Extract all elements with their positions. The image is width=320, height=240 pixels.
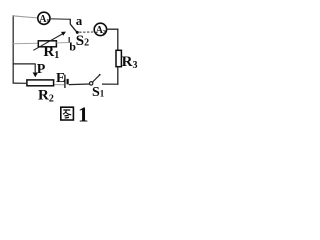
switch S1 blade <box>93 75 100 82</box>
rheostat R1 body <box>38 41 56 47</box>
wire: battery to S1 <box>69 83 90 86</box>
ammeter A1 <box>38 12 50 24</box>
wire: A2 to right rail <box>107 28 119 30</box>
battery E long plate <box>64 75 66 88</box>
switch S1 pivot ring <box>90 82 93 85</box>
slider P arrowhead <box>33 73 38 78</box>
wire: R1 row right (faint) <box>56 42 69 44</box>
wire: slider branch <box>13 63 36 65</box>
node a contact stub <box>69 19 71 24</box>
wire: S2 pivot to A2 (dashed) <box>79 31 94 33</box>
wire: R2 to battery (faint) <box>54 84 65 86</box>
wire: right rail upper <box>117 29 119 51</box>
svg-text:b: b <box>69 40 76 54</box>
node b contact stub <box>68 37 70 43</box>
switch S2 pivot <box>76 31 79 34</box>
wire: bottom left segment <box>13 82 28 84</box>
resistor R3 <box>116 50 121 66</box>
wire: bottom right segment <box>102 83 118 85</box>
ammeter A2 <box>94 23 106 35</box>
wire: R1 row left (faint) <box>13 42 38 44</box>
wire: top wire left of A1 <box>13 16 39 18</box>
switch S2 blade <box>70 24 77 32</box>
wire: left rail <box>12 15 14 83</box>
wire: right rail lower <box>117 67 119 85</box>
rheostat R1 arrow <box>33 34 62 50</box>
potentiometer R2 <box>27 80 54 86</box>
svg-text:1: 1 <box>46 18 49 25</box>
svg-text:a: a <box>76 13 83 28</box>
svg-text:2: 2 <box>103 29 106 36</box>
slider P arrow shaft <box>34 64 36 73</box>
svg-text:P: P <box>37 62 46 77</box>
svg-text:1: 1 <box>78 103 89 127</box>
caption figure 1: hand-drawn CJK 图 <box>61 107 74 120</box>
wire: top wire right of A1 <box>50 18 71 21</box>
svg-text:E: E <box>56 71 65 86</box>
battery E short plate <box>66 79 68 84</box>
